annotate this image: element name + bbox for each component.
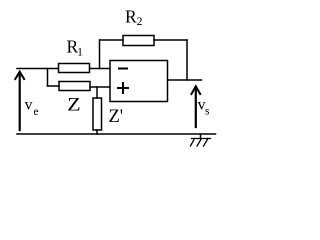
- wire top-left rail: [17, 68, 59, 70]
- arrow output vs shaft: [195, 87, 197, 127]
- op-amp inverting input minus sign: [119, 68, 127, 70]
- svg-text:Z: Z: [67, 96, 80, 116]
- op-amp U1 body: [110, 61, 168, 102]
- ground bar: [192, 138, 211, 140]
- svg-text:e: e: [34, 106, 39, 118]
- resistor R1: [59, 64, 90, 73]
- wire R2 right lead: [154, 39, 187, 41]
- svg-text:R: R: [125, 7, 137, 27]
- arrow source ve shaft: [19, 73, 21, 131]
- wire R2 left lead: [100, 39, 124, 41]
- op-amp non-inverting input plus sign: [118, 83, 128, 93]
- arrow source ve head: [15, 72, 24, 79]
- label R2: [125, 7, 143, 29]
- resistor Z: [59, 82, 90, 91]
- ground stub: [200, 134, 202, 139]
- svg-text:v: v: [25, 97, 33, 114]
- wire Z output to non-inverting input: [90, 86, 110, 88]
- ground hatch 1: [191, 139, 195, 147]
- svg-text:s: s: [205, 106, 210, 118]
- wire R1 output to inverting input: [90, 68, 111, 70]
- svg-text:Z': Z': [109, 107, 124, 127]
- label ve: [25, 97, 39, 119]
- ground hatch 2: [197, 139, 202, 147]
- resistor R2: [123, 36, 154, 46]
- resistor Z': [93, 98, 102, 130]
- label R1: [67, 37, 84, 59]
- label vs: [198, 97, 211, 118]
- wire Z' top lead: [96, 87, 98, 98]
- wire op-amp output: [168, 79, 202, 81]
- svg-text:2: 2: [137, 14, 143, 28]
- wire bottom rail: [17, 133, 216, 135]
- wire feedback left vertical: [99, 40, 101, 69]
- arrow output vs head: [191, 86, 200, 94]
- wire feedback right vertical: [186, 40, 188, 80]
- wire Z left lead: [48, 85, 60, 87]
- svg-text:1: 1: [77, 45, 83, 59]
- ground hatch 3: [204, 139, 209, 147]
- wire branch vertical to Z: [47, 69, 49, 87]
- wire Z' bottom lead: [96, 130, 98, 134]
